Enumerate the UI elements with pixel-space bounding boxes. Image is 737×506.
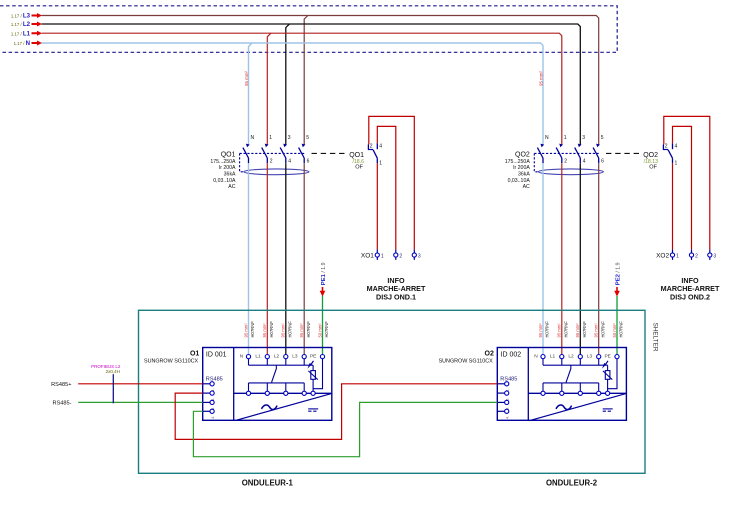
svg-text:175...250A: 175...250A <box>210 159 236 165</box>
svg-text:AC: AC <box>228 184 235 190</box>
svg-text:QO1: QO1 <box>221 152 236 159</box>
svg-text:PE: PE <box>310 353 316 359</box>
svg-text:1: 1 <box>564 135 567 141</box>
svg-text:4: 4 <box>583 159 586 165</box>
svg-text:DISJ OND.2: DISJ OND.2 <box>670 293 710 302</box>
svg-text:2: 2 <box>665 144 668 150</box>
svg-text:MARCHE-ARRET: MARCHE-ARRET <box>661 284 720 293</box>
svg-text:QO1: QO1 <box>349 152 364 159</box>
svg-text:1: 1 <box>381 253 384 259</box>
svg-text:QO2: QO2 <box>643 152 658 159</box>
svg-text:6: 6 <box>307 159 310 165</box>
svg-text:1: 1 <box>676 253 679 259</box>
svg-text:95 mm²: 95 mm² <box>538 71 543 86</box>
svg-text:N: N <box>251 135 255 141</box>
svg-text:36kA: 36kA <box>224 172 236 178</box>
svg-text:N: N <box>545 135 549 141</box>
svg-text:1.17 / L2: 1.17 / L2 <box>11 21 31 28</box>
svg-text:4: 4 <box>675 144 678 150</box>
svg-text:ONDULEUR-2: ONDULEUR-2 <box>546 479 598 488</box>
svg-text:PE1 / 1.9: PE1 / 1.9 <box>321 262 327 285</box>
svg-text:95 mm²: 95 mm² <box>281 323 286 338</box>
svg-text:1.17 / N: 1.17 / N <box>14 40 30 47</box>
svg-text:1.17 / L1: 1.17 / L1 <box>11 30 31 37</box>
svg-text:L1: L1 <box>550 353 556 359</box>
svg-text:RS485: RS485 <box>500 377 517 383</box>
svg-text:L1: L1 <box>255 353 261 359</box>
svg-text:5: 5 <box>601 135 604 141</box>
svg-text:95 mm²: 95 mm² <box>243 323 248 338</box>
svg-text:XO1: XO1 <box>361 253 374 260</box>
svg-text:95 mm²: 95 mm² <box>594 323 599 338</box>
svg-text:3: 3 <box>582 135 585 141</box>
svg-text:50 mm²: 50 mm² <box>612 323 617 338</box>
svg-text:H07RNF: H07RNF <box>582 321 587 338</box>
svg-text:1.17 / L3: 1.17 / L3 <box>11 13 31 20</box>
svg-text:2: 2 <box>695 253 698 259</box>
svg-text:SHELTER: SHELTER <box>651 323 658 352</box>
svg-text:36kA: 36kA <box>518 172 530 178</box>
svg-text:ID 001: ID 001 <box>206 351 227 358</box>
svg-text:RS485: RS485 <box>206 377 223 383</box>
svg-text:H07RNF: H07RNF <box>563 321 568 338</box>
svg-text:4: 4 <box>379 144 382 150</box>
svg-text:4.: 4. <box>211 416 215 419</box>
svg-text:H07RNF: H07RNF <box>306 321 311 338</box>
svg-text:SUNGROW SG110CX: SUNGROW SG110CX <box>144 358 199 364</box>
svg-text:L3: L3 <box>292 353 298 359</box>
svg-text:H07RNF: H07RNF <box>600 321 605 338</box>
svg-text:ID 002: ID 002 <box>501 351 522 358</box>
svg-text:H07RNF: H07RNF <box>287 321 292 338</box>
svg-text:DISJ OND.1: DISJ OND.1 <box>376 293 416 302</box>
svg-text:3: 3 <box>418 253 421 259</box>
svg-text:95 mm²: 95 mm² <box>262 323 267 338</box>
svg-text:H07RNF: H07RNF <box>324 321 329 338</box>
svg-text:O2: O2 <box>485 351 494 358</box>
svg-text:Ir 200A: Ir 200A <box>219 165 236 171</box>
svg-text:4: 4 <box>288 159 291 165</box>
svg-text:QO2: QO2 <box>515 152 530 159</box>
svg-text:MARCHE-ARRET: MARCHE-ARRET <box>367 284 426 293</box>
svg-text:0,03..10A: 0,03..10A <box>213 178 236 184</box>
svg-text:Ir 200A: Ir 200A <box>513 165 530 171</box>
svg-text:H07RNF: H07RNF <box>250 321 255 338</box>
svg-text:L2: L2 <box>568 353 574 359</box>
svg-text:1: 1 <box>269 135 272 141</box>
svg-text:XO2: XO2 <box>656 253 669 260</box>
svg-text:2: 2 <box>370 144 373 150</box>
svg-text:95 mm²: 95 mm² <box>557 323 562 338</box>
svg-text:H07RNF: H07RNF <box>269 321 274 338</box>
svg-text:O1: O1 <box>190 351 199 358</box>
svg-text:1: 1 <box>379 160 382 166</box>
svg-text:1: 1 <box>675 160 678 166</box>
svg-text:RS485-: RS485- <box>53 401 72 407</box>
svg-text:95 mm²: 95 mm² <box>538 323 543 338</box>
svg-text:5: 5 <box>306 135 309 141</box>
svg-text:4.: 4. <box>506 416 510 419</box>
svg-text:ONDULEUR-1: ONDULEUR-1 <box>242 479 294 488</box>
svg-text:0,03..10A: 0,03..10A <box>508 178 531 184</box>
svg-text:2: 2 <box>399 253 402 259</box>
svg-text:50 mm²: 50 mm² <box>317 323 322 338</box>
svg-text:3: 3 <box>288 135 291 141</box>
svg-text:2x0,4H: 2x0,4H <box>106 369 120 374</box>
svg-text:OF: OF <box>355 165 363 171</box>
svg-text:PE2 / 1.9: PE2 / 1.9 <box>615 262 621 285</box>
svg-text:95 mm²: 95 mm² <box>244 71 249 86</box>
svg-text:L3: L3 <box>587 353 593 359</box>
svg-text:2: 2 <box>270 159 273 165</box>
svg-text:3: 3 <box>713 253 716 259</box>
svg-text:95 mm²: 95 mm² <box>575 323 580 338</box>
svg-text:L2: L2 <box>274 353 280 359</box>
svg-text:N: N <box>534 353 538 359</box>
svg-text:N: N <box>240 353 244 359</box>
svg-text:6: 6 <box>601 159 604 165</box>
svg-text:SUNGROW SG110CX: SUNGROW SG110CX <box>439 358 494 364</box>
svg-text:H07RNF: H07RNF <box>619 321 624 338</box>
svg-text:OF: OF <box>649 165 657 171</box>
svg-text:H07RNF: H07RNF <box>545 321 550 338</box>
svg-text:AC: AC <box>523 184 530 190</box>
svg-text:PE: PE <box>604 353 610 359</box>
svg-text:RS485+: RS485+ <box>51 382 71 388</box>
svg-text:95 mm²: 95 mm² <box>299 323 304 338</box>
svg-text:175...250A: 175...250A <box>505 159 531 165</box>
svg-text:2: 2 <box>564 159 567 165</box>
